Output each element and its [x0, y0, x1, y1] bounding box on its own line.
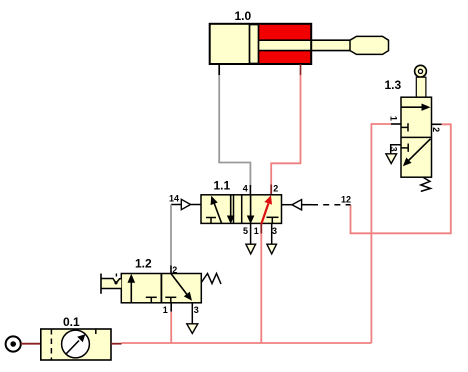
svg-text:0.1: 0.1: [63, 315, 80, 329]
svg-text:5: 5: [243, 226, 248, 236]
top box blocked T: [401, 126, 408, 128]
wire red: 1.2 port 1 down to supply: [170, 312, 172, 343]
wire red: supply up to 1.3 port 1: [371, 124, 391, 343]
pilot 12 dashed line: [312, 204, 351, 206]
svg-text:12: 12: [341, 194, 351, 204]
port 3 stub + exhaust triangle: [391, 145, 401, 154]
manual actuator left: [101, 279, 121, 289]
svg-text:1.3: 1.3: [385, 78, 402, 92]
port 1 stub: [170, 303, 172, 312]
service unit rect: [41, 329, 111, 360]
port 5 exhaust: [250, 223, 252, 244]
pilot right triangle 12: [282, 204, 293, 206]
svg-text:14: 14: [169, 194, 179, 204]
svg-text:1.0: 1.0: [235, 9, 252, 23]
valve 1.2 body: [121, 274, 201, 303]
cylinder 1.0 left chamber: [210, 25, 250, 64]
internal dividers: [233, 195, 235, 224]
wire red: valve 1.1 port 1 down to supply: [260, 223, 262, 233]
svg-text:1: 1: [389, 116, 399, 121]
pilot left triangle 14: [171, 204, 181, 206]
left box blocked T: [150, 298, 152, 303]
box divider: [401, 136, 432, 138]
spring bottom: [421, 178, 431, 192]
wire maroon source to 0.1: [21, 343, 41, 345]
roller circle: [415, 65, 427, 77]
source circle: [6, 336, 21, 351]
right box diagonal 2->3: [171, 274, 187, 295]
right box blocked T port 1: [170, 298, 172, 303]
cylinder 1.0 piston: [250, 25, 259, 64]
bottom box blocked T (port 3): [401, 147, 408, 149]
valve 1.3 body: [401, 97, 432, 177]
port 3 exhaust: [271, 223, 273, 244]
gauge circle: [62, 330, 90, 358]
svg-text:1.2: 1.2: [135, 257, 152, 271]
top box flow arrow 1->2: [401, 106, 428, 108]
wire red: 1.3 port 2 to pilot 12: [351, 124, 451, 233]
right box down arrow 4->5: [250, 195, 252, 217]
svg-text:3: 3: [272, 226, 277, 236]
svg-text:3: 3: [194, 305, 199, 315]
cylinder 1.0 rod end knob: [350, 36, 389, 54]
svg-text:2: 2: [273, 184, 278, 194]
port 1 stub: [391, 123, 401, 125]
svg-text:1: 1: [163, 305, 168, 315]
gauge arrow: [66, 341, 79, 355]
svg-text:4: 4: [243, 184, 248, 194]
svg-text:1: 1: [254, 226, 259, 236]
left box blocked T port5: [210, 218, 212, 223]
wire gray: 1.2 port 2 up to pilot 14: [170, 205, 172, 266]
left box diagonal arrow 1->4: [213, 200, 222, 223]
roller stem: [416, 77, 426, 97]
cylinder 1.0 body outline: [210, 24, 312, 64]
supply line red: [122, 342, 372, 344]
wire red continues to supply: [260, 234, 262, 344]
cylinder 1.0 piston rod: [259, 40, 351, 50]
svg-text:1.1: 1.1: [214, 179, 231, 193]
left box up arrow: [130, 280, 132, 303]
svg-text:2: 2: [431, 127, 441, 132]
wire gray: cylinder left port to valve 1.1 port 4: [219, 75, 250, 187]
bottom box diagonal arrow: [407, 139, 431, 162]
dashed divider: [50, 329, 52, 360]
left box down arrow 2->3: [230, 195, 232, 217]
right box red diagonal 1->2: [261, 204, 268, 225]
svg-text:2: 2: [172, 265, 177, 275]
wire red: cylinder right port to valve 1.1 port 2: [271, 75, 300, 185]
port 2 stub: [432, 123, 442, 125]
cylinder 1.0 right port stub: [300, 64, 302, 75]
cylinder 1.0 left port stub: [218, 64, 220, 75]
port 3 stub + exhaust: [191, 303, 193, 324]
port 2 stub: [170, 266, 172, 274]
divider: [160, 274, 162, 303]
out stub maroon: [111, 343, 122, 345]
spring right: [201, 274, 221, 285]
right box blocked T port3: [271, 218, 273, 223]
cylinder 1.0 right chamber red fill: [259, 25, 311, 64]
tick top right: [95, 329, 97, 334]
svg-text:3: 3: [389, 147, 399, 152]
wire stub black to port 4: [249, 185, 251, 195]
valve 1.1 body: [201, 195, 282, 224]
maroon stub at valve 1.1 port 2: [270, 185, 272, 196]
